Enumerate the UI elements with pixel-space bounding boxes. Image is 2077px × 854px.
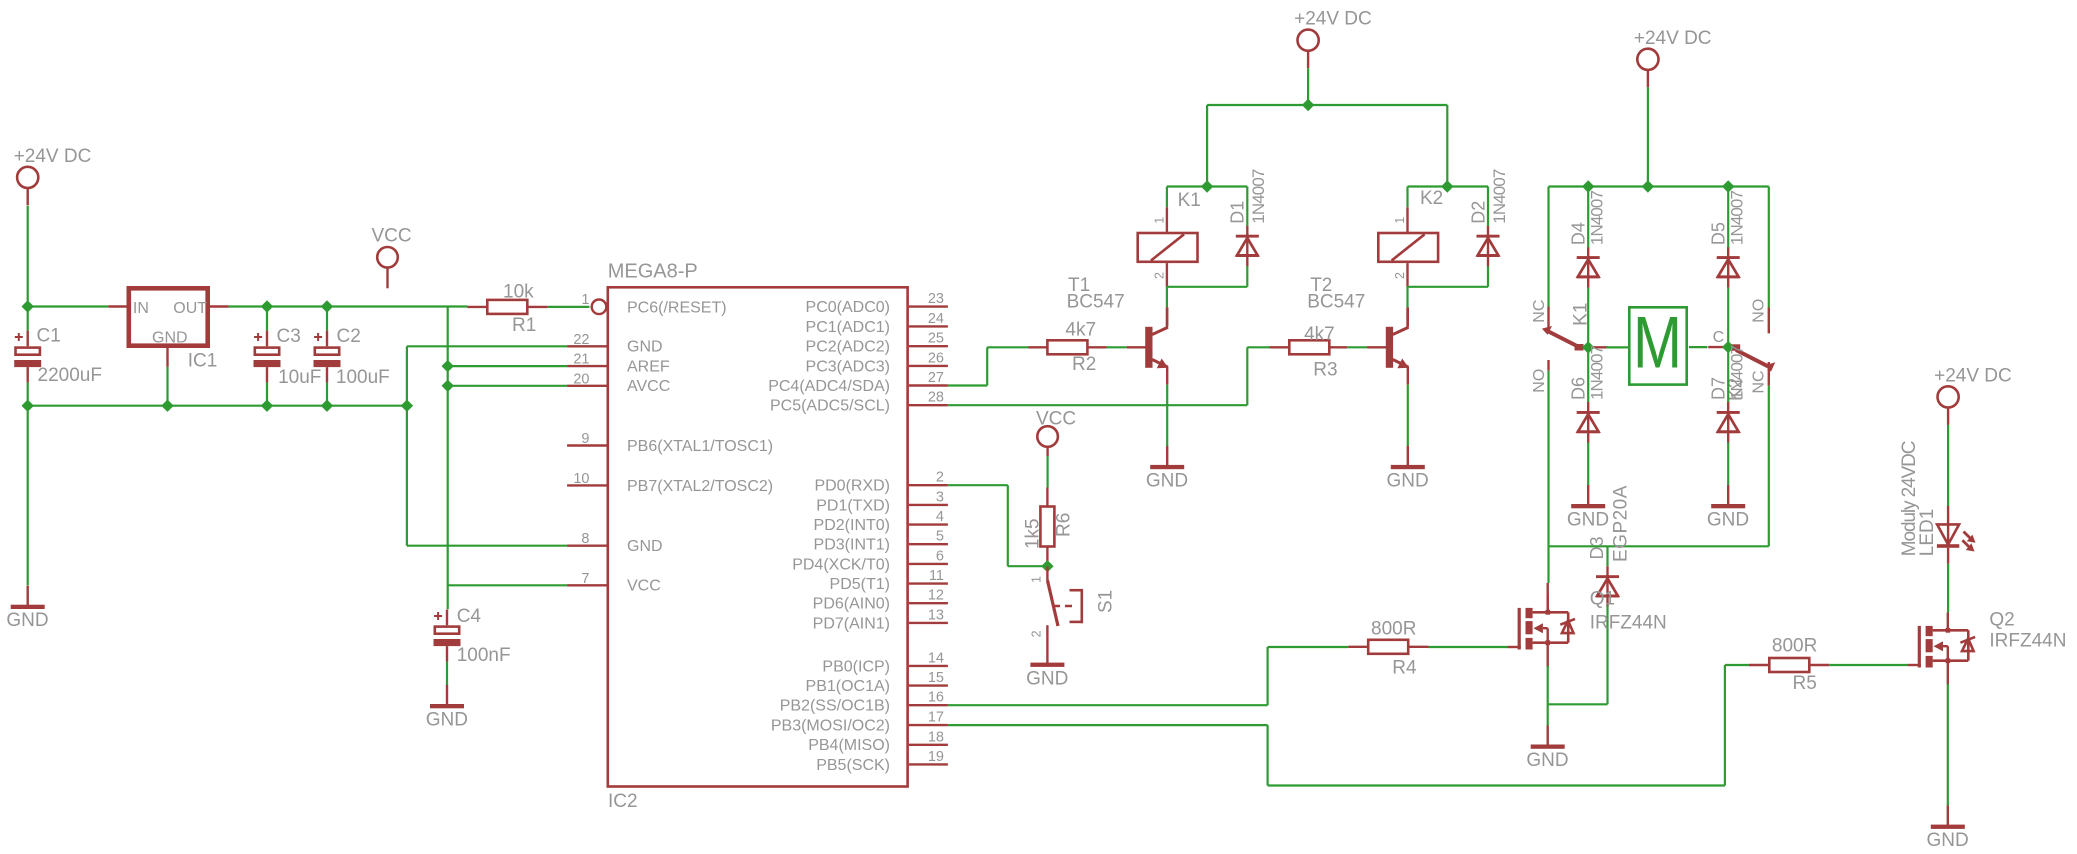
svg-text:AREF: AREF <box>627 359 670 376</box>
svg-text:5: 5 <box>936 529 944 545</box>
svg-text:800R: 800R <box>1772 636 1817 657</box>
svg-text:1: 1 <box>1153 217 1167 224</box>
svg-text:GND: GND <box>1526 750 1568 771</box>
svg-text:18: 18 <box>928 729 944 745</box>
svg-text:1: 1 <box>581 292 589 308</box>
svg-text:PC5(ADC5/SCL): PC5(ADC5/SCL) <box>770 398 890 415</box>
svg-text:OUT: OUT <box>173 300 207 317</box>
svg-text:VCC: VCC <box>372 225 412 246</box>
svg-text:C3: C3 <box>277 326 301 347</box>
svg-text:BC547: BC547 <box>1307 291 1365 312</box>
svg-text:24: 24 <box>928 311 944 327</box>
svg-text:22: 22 <box>573 332 589 348</box>
svg-text:20: 20 <box>573 371 589 387</box>
svg-text:800R: 800R <box>1371 619 1416 640</box>
svg-text:GND: GND <box>1026 669 1068 690</box>
svg-text:PD7(AIN1): PD7(AIN1) <box>813 615 890 632</box>
svg-text:PB5(SCK): PB5(SCK) <box>816 757 890 774</box>
svg-text:28: 28 <box>928 390 944 406</box>
svg-text:PC6(/RESET): PC6(/RESET) <box>627 300 727 317</box>
svg-text:13: 13 <box>928 607 944 623</box>
svg-text:27: 27 <box>928 370 944 386</box>
svg-text:15: 15 <box>928 670 944 686</box>
svg-text:PD4(XCK/T0): PD4(XCK/T0) <box>792 556 890 573</box>
svg-text:D5: D5 <box>1709 222 1729 245</box>
svg-text:R1: R1 <box>512 315 536 336</box>
svg-text:GND: GND <box>627 538 663 555</box>
svg-text:PC3(ADC3): PC3(ADC3) <box>806 358 890 375</box>
svg-text:S1: S1 <box>1096 590 1117 613</box>
svg-text:10: 10 <box>573 471 589 487</box>
svg-text:+24V DC: +24V DC <box>14 146 92 167</box>
svg-text:PB4(MISO): PB4(MISO) <box>808 737 890 754</box>
svg-text:NC: NC <box>1750 370 1767 393</box>
svg-text:2: 2 <box>936 470 944 486</box>
svg-text:C1: C1 <box>37 326 61 347</box>
svg-text:D1: D1 <box>1228 201 1248 224</box>
svg-text:EGP20A: EGP20A <box>1610 485 1631 562</box>
svg-text:PC1(ADC1): PC1(ADC1) <box>806 319 890 336</box>
svg-text:9: 9 <box>581 431 589 447</box>
svg-text:2: 2 <box>1030 630 1044 637</box>
svg-text:PD5(T1): PD5(T1) <box>830 576 890 593</box>
svg-text:D6: D6 <box>1569 377 1589 400</box>
svg-text:K1: K1 <box>1571 303 1592 326</box>
svg-text:K1: K1 <box>1178 190 1201 211</box>
svg-text:4k7: 4k7 <box>1065 320 1096 341</box>
svg-text:PD6(AIN0): PD6(AIN0) <box>813 596 890 613</box>
svg-text:IN: IN <box>133 300 149 317</box>
svg-text:NO: NO <box>1531 369 1548 393</box>
svg-text:R6: R6 <box>1054 513 1075 537</box>
svg-text:VCC: VCC <box>1036 409 1076 430</box>
svg-text:C2: C2 <box>337 326 361 347</box>
svg-text:PC0(ADC0): PC0(ADC0) <box>806 299 890 316</box>
svg-text:4k7: 4k7 <box>1304 324 1335 345</box>
svg-text:PB7(XTAL2/TOSC2): PB7(XTAL2/TOSC2) <box>627 478 773 495</box>
svg-text:GND: GND <box>627 339 663 356</box>
svg-text:PB6(XTAL1/TOSC1): PB6(XTAL1/TOSC1) <box>627 438 773 455</box>
svg-text:1N4007: 1N4007 <box>1490 169 1509 224</box>
svg-text:10k: 10k <box>503 282 534 303</box>
svg-text:1N4007: 1N4007 <box>1728 345 1747 400</box>
svg-text:IRFZ44N: IRFZ44N <box>1590 613 1667 634</box>
svg-text:2: 2 <box>1393 272 1407 279</box>
svg-text:1: 1 <box>1030 576 1044 583</box>
svg-text:C4: C4 <box>457 606 482 627</box>
svg-text:NC: NC <box>1531 300 1548 323</box>
svg-text:16: 16 <box>928 690 944 706</box>
svg-text:14: 14 <box>928 650 944 666</box>
svg-text:PC2(ADC2): PC2(ADC2) <box>806 339 890 356</box>
svg-text:AVCC: AVCC <box>627 378 670 395</box>
svg-text:IRFZ44N: IRFZ44N <box>1989 631 2066 652</box>
svg-text:GND: GND <box>1707 510 1749 531</box>
svg-text:1: 1 <box>1393 217 1407 224</box>
svg-text:PD1(TXD): PD1(TXD) <box>816 497 890 514</box>
svg-text:1k5: 1k5 <box>1023 518 1044 549</box>
svg-text:D7: D7 <box>1709 377 1729 400</box>
svg-text:PB3(MOSI/OC2): PB3(MOSI/OC2) <box>771 718 890 735</box>
svg-text:LED1: LED1 <box>1917 509 1938 557</box>
svg-text:+24V DC: +24V DC <box>1294 9 1372 30</box>
svg-text:GND: GND <box>1146 470 1188 491</box>
svg-text:12: 12 <box>928 588 944 604</box>
svg-text:VCC: VCC <box>627 578 661 595</box>
svg-text:D4: D4 <box>1569 222 1589 245</box>
svg-text:23: 23 <box>928 291 944 307</box>
svg-text:IC2: IC2 <box>608 791 638 812</box>
svg-text:R2: R2 <box>1072 354 1096 375</box>
svg-text:17: 17 <box>928 710 944 726</box>
svg-text:10uF: 10uF <box>278 367 321 388</box>
svg-text:PB0(ICP): PB0(ICP) <box>822 658 890 675</box>
svg-text:2: 2 <box>1153 272 1167 279</box>
svg-text:M: M <box>1633 303 1682 384</box>
svg-text:BC547: BC547 <box>1067 291 1125 312</box>
svg-text:+24V DC: +24V DC <box>1634 28 1712 49</box>
svg-text:C: C <box>1713 329 1725 346</box>
svg-text:100nF: 100nF <box>457 645 511 666</box>
svg-text:GND: GND <box>1927 830 1969 851</box>
svg-text:PD0(RXD): PD0(RXD) <box>814 478 890 495</box>
svg-text:GND: GND <box>426 710 468 731</box>
svg-text:R5: R5 <box>1793 673 1817 694</box>
svg-text:Q2: Q2 <box>1989 610 2014 631</box>
svg-text:D2: D2 <box>1468 201 1488 224</box>
svg-text:NO: NO <box>1750 299 1767 323</box>
svg-text:1N4007: 1N4007 <box>1588 191 1607 246</box>
svg-text:MEGA8-P: MEGA8-P <box>608 261 698 283</box>
svg-text:PB1(OC1A): PB1(OC1A) <box>806 678 890 695</box>
svg-text:K2: K2 <box>1420 188 1443 209</box>
svg-text:PD2(INT0): PD2(INT0) <box>814 517 890 534</box>
svg-text:GND: GND <box>6 610 48 631</box>
svg-text:D3: D3 <box>1587 536 1607 559</box>
svg-text:1N4007: 1N4007 <box>1588 345 1607 400</box>
svg-text:+24V DC: +24V DC <box>1934 365 2012 386</box>
svg-text:IC1: IC1 <box>188 351 218 372</box>
svg-text:R4: R4 <box>1392 658 1417 679</box>
svg-text:GND: GND <box>1387 470 1429 491</box>
svg-text:GND: GND <box>152 330 188 347</box>
svg-text:Q1: Q1 <box>1590 588 1615 609</box>
svg-text:PD3(INT1): PD3(INT1) <box>814 537 890 554</box>
svg-text:100uF: 100uF <box>336 367 390 388</box>
svg-text:R3: R3 <box>1313 360 1337 381</box>
svg-text:7: 7 <box>581 571 589 587</box>
svg-text:21: 21 <box>573 352 589 368</box>
svg-text:GND: GND <box>1567 510 1609 531</box>
svg-text:8: 8 <box>581 531 589 547</box>
svg-text:26: 26 <box>928 350 944 366</box>
svg-text:1N4007: 1N4007 <box>1728 191 1747 246</box>
svg-text:1N4007: 1N4007 <box>1249 169 1268 224</box>
svg-text:25: 25 <box>928 331 944 347</box>
svg-text:11: 11 <box>929 568 944 584</box>
svg-text:19: 19 <box>928 749 944 765</box>
svg-text:3: 3 <box>936 489 944 505</box>
svg-text:6: 6 <box>936 548 944 564</box>
svg-text:PC4(ADC4/SDA): PC4(ADC4/SDA) <box>768 378 890 395</box>
svg-text:PB2(SS/OC1B): PB2(SS/OC1B) <box>780 698 890 715</box>
svg-text:4: 4 <box>936 509 944 525</box>
svg-text:2200uF: 2200uF <box>38 365 102 386</box>
